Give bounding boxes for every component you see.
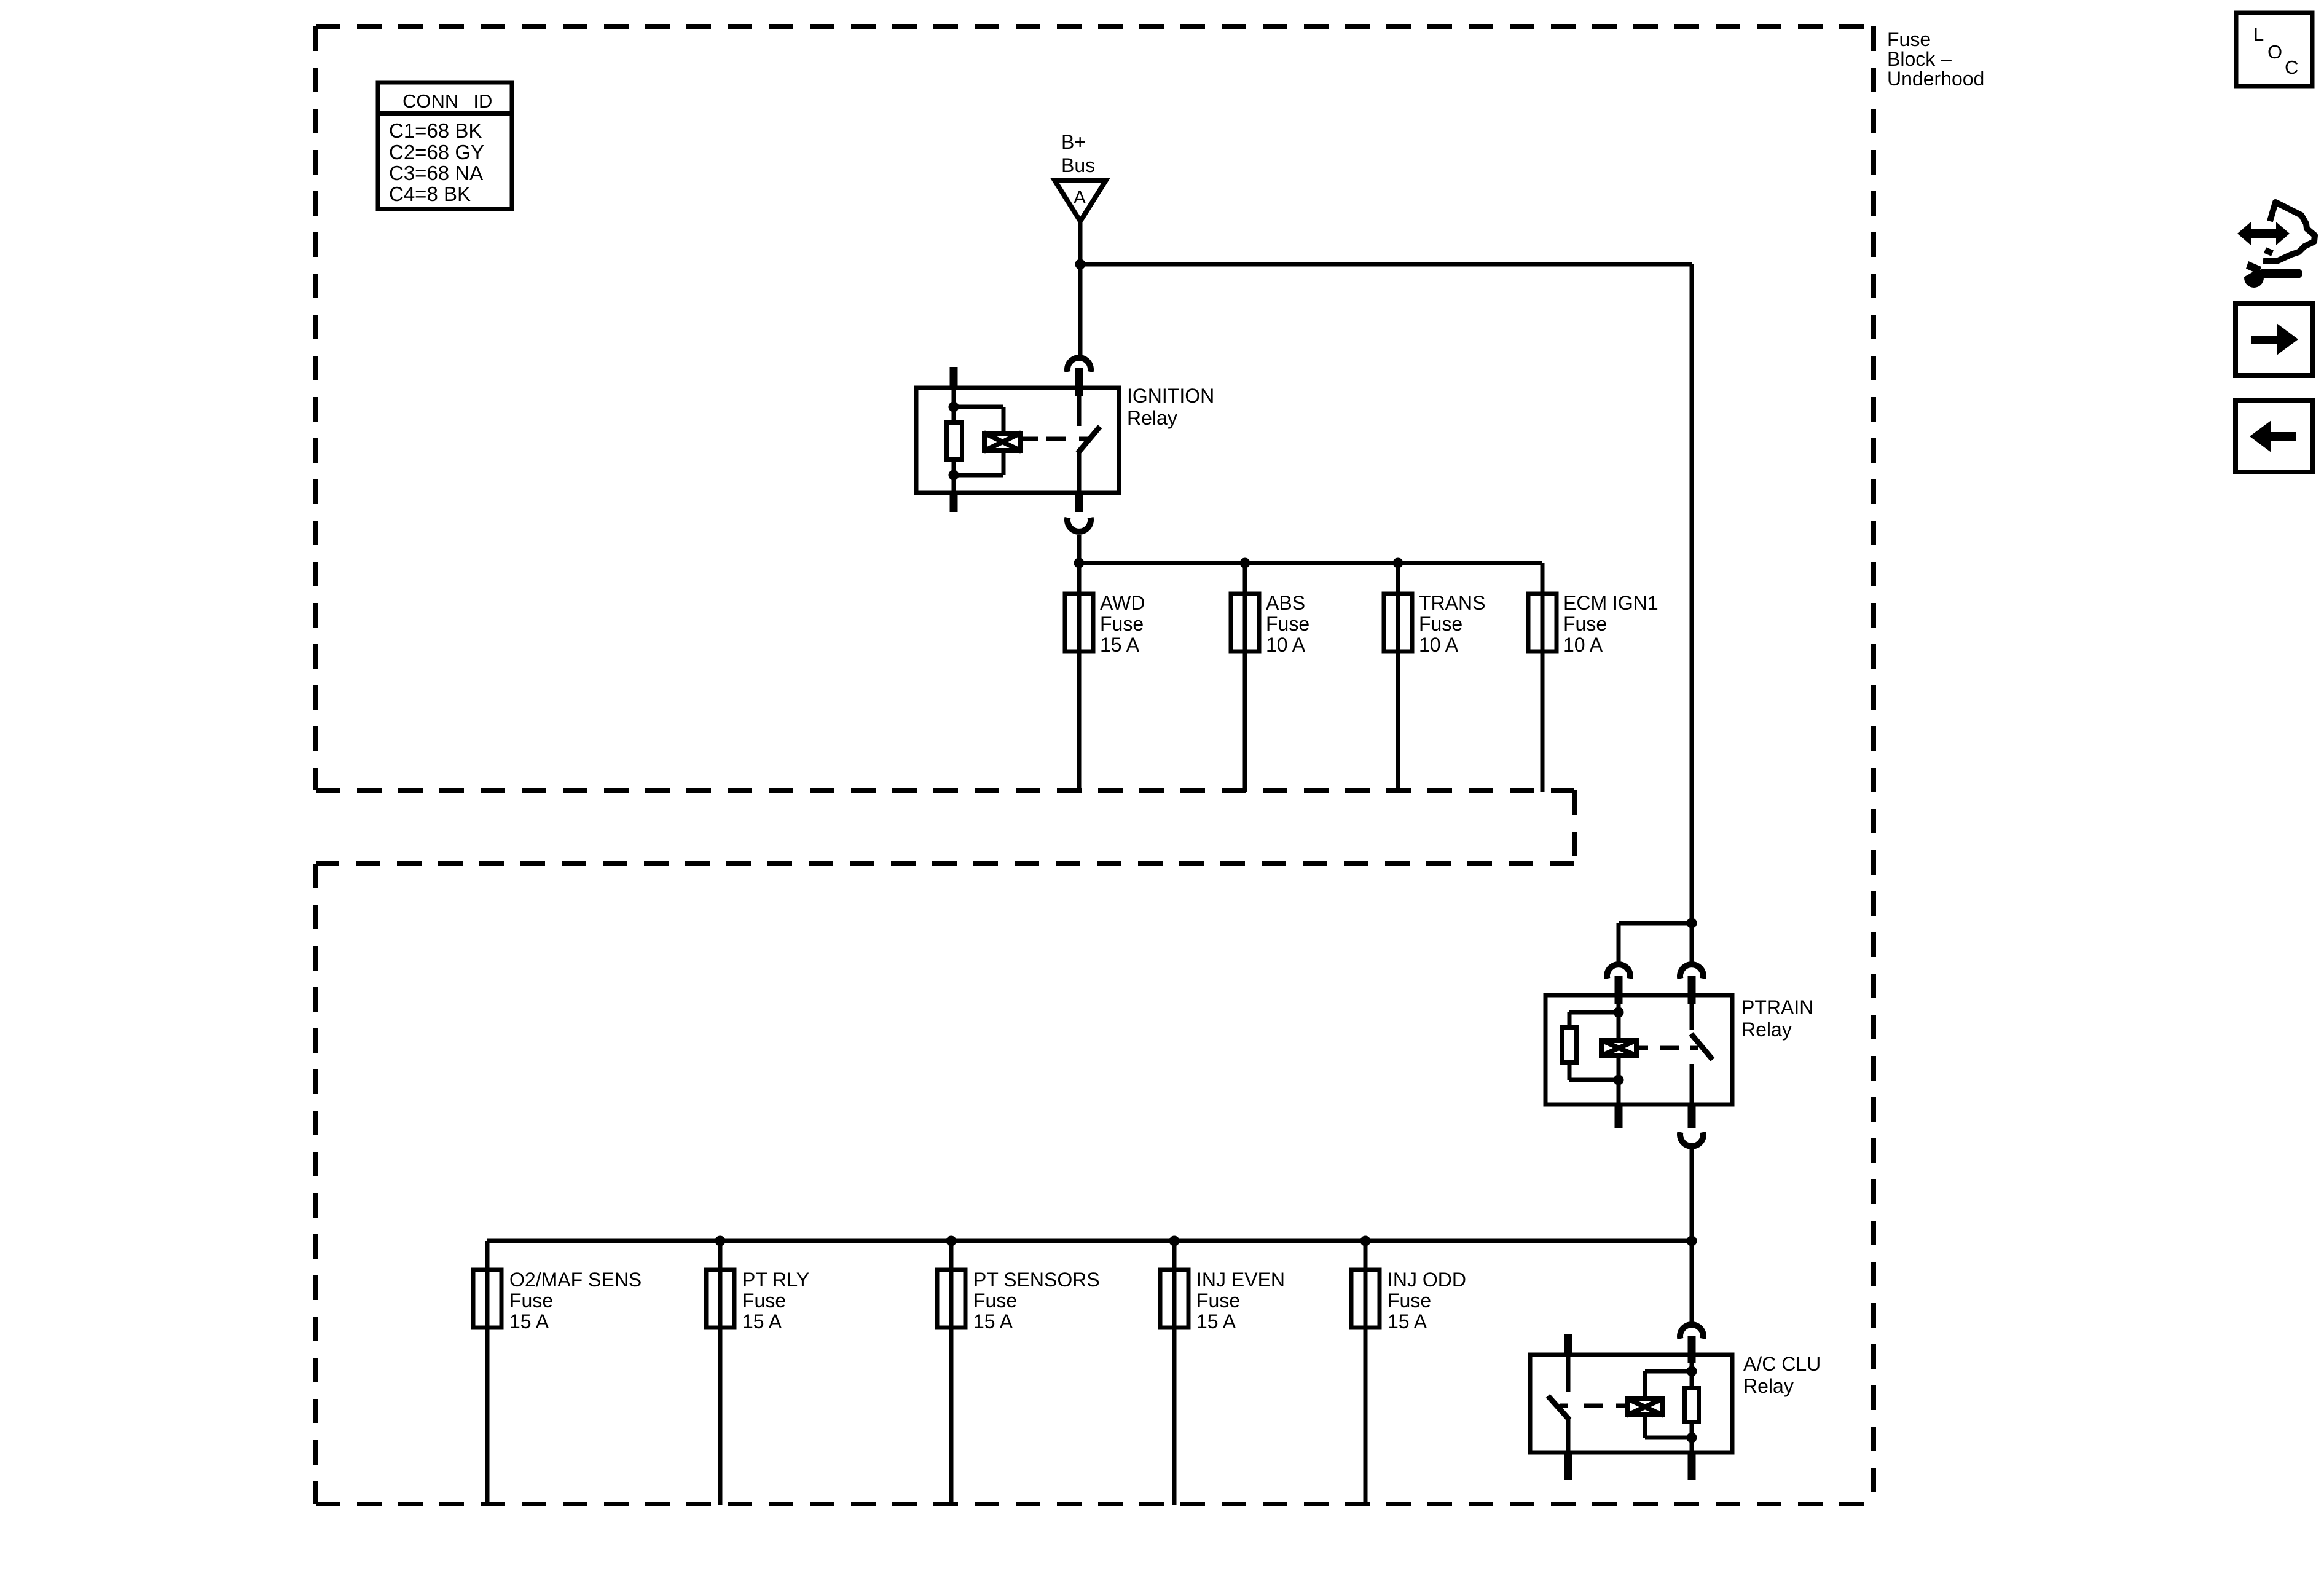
svg-text:IGNITION: IGNITION	[1127, 385, 1214, 407]
svg-text:Fuse: Fuse	[1419, 613, 1462, 635]
svg-text:AWD: AWD	[1100, 592, 1145, 614]
svg-text:O: O	[2267, 41, 2282, 63]
svg-text:ECM IGN1: ECM IGN1	[1563, 592, 1659, 614]
svg-text:B+: B+	[1061, 131, 1086, 153]
svg-text:10 A: 10 A	[1419, 634, 1459, 656]
svg-text:C4=8 BK: C4=8 BK	[389, 183, 471, 205]
svg-text:10 A: 10 A	[1563, 634, 1603, 656]
svg-text:Relay: Relay	[1127, 407, 1177, 429]
svg-text:O2/MAF SENS: O2/MAF SENS	[509, 1269, 642, 1291]
svg-text:15 A: 15 A	[509, 1310, 549, 1333]
svg-text:Fuse: Fuse	[742, 1290, 786, 1312]
svg-text:15 A: 15 A	[1388, 1310, 1427, 1333]
svg-text:C2=68 GY: C2=68 GY	[389, 141, 484, 163]
svg-text:Fuse: Fuse	[1887, 28, 1931, 50]
svg-text:Fuse: Fuse	[1100, 613, 1144, 635]
svg-text:Fuse: Fuse	[1563, 613, 1607, 635]
svg-text:Underhood: Underhood	[1887, 68, 1984, 90]
svg-text:15 A: 15 A	[742, 1310, 782, 1333]
svg-text:PTRAIN: PTRAIN	[1741, 996, 1813, 1018]
svg-text:C: C	[2285, 57, 2298, 78]
svg-text:Fuse: Fuse	[509, 1290, 553, 1312]
svg-text:Fuse: Fuse	[1388, 1290, 1431, 1312]
svg-text:ABS: ABS	[1266, 592, 1305, 614]
svg-text:Fuse: Fuse	[1196, 1290, 1240, 1312]
svg-text:A/C CLU: A/C CLU	[1743, 1353, 1821, 1375]
svg-text:15 A: 15 A	[1196, 1310, 1236, 1333]
svg-text:CONN ID: CONN ID	[402, 90, 492, 112]
svg-text:Bus: Bus	[1061, 154, 1095, 176]
svg-text:Fuse: Fuse	[973, 1290, 1017, 1312]
svg-text:15 A: 15 A	[1100, 634, 1140, 656]
svg-text:Block –: Block –	[1887, 48, 1952, 70]
svg-text:INJ EVEN: INJ EVEN	[1196, 1269, 1285, 1291]
svg-text:15 A: 15 A	[973, 1310, 1013, 1333]
svg-text:PT SENSORS: PT SENSORS	[973, 1269, 1100, 1291]
svg-text:Relay: Relay	[1741, 1018, 1792, 1041]
svg-text:INJ ODD: INJ ODD	[1388, 1269, 1466, 1291]
svg-text:L: L	[2253, 23, 2264, 45]
svg-text:10 A: 10 A	[1266, 634, 1306, 656]
svg-text:Relay: Relay	[1743, 1375, 1794, 1397]
svg-text:PT RLY: PT RLY	[742, 1269, 809, 1291]
svg-text:C3=68 NA: C3=68 NA	[389, 162, 483, 184]
svg-text:Fuse: Fuse	[1266, 613, 1309, 635]
svg-text:A: A	[1074, 187, 1086, 208]
svg-text:TRANS: TRANS	[1419, 592, 1485, 614]
svg-text:C1=68 BK: C1=68 BK	[389, 119, 482, 142]
